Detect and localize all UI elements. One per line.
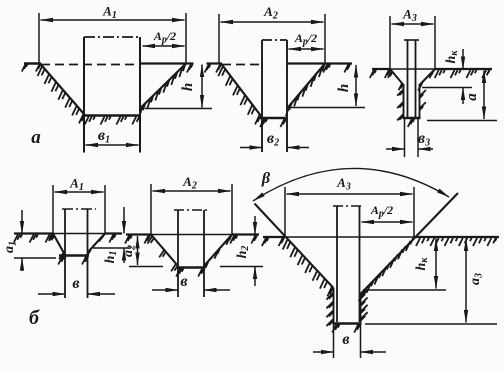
fig2 hatching under pit bottom <box>260 119 286 127</box>
fig3 dimension a <box>464 71 484 120</box>
fig1 right slope <box>141 64 187 109</box>
fig5 right slope hatching <box>203 235 232 273</box>
fig6 left slope (extended above ground) <box>255 204 334 289</box>
fig4 left depth extension line <box>14 257 56 259</box>
fig6 right slope (extended above ground) <box>361 193 459 294</box>
fig2 footing column <box>262 40 287 152</box>
fig4 right depth extension line <box>93 247 131 249</box>
fig4 ground line <box>14 232 122 234</box>
fig2 ground line right <box>325 62 352 64</box>
svg-text:а: а <box>464 93 480 101</box>
fig4 left slope <box>53 234 65 255</box>
fig6 dimension A3 <box>285 175 414 237</box>
fig3 trench side hatching <box>397 89 426 120</box>
fig2 right slope hatching <box>286 64 325 116</box>
fig5 left slope hatching <box>147 236 177 271</box>
fig5 right depth extension line <box>220 266 263 268</box>
fig2 ground line right of column <box>287 62 325 64</box>
fig6 right slope hatching <box>359 238 414 301</box>
fig6 pit bottom <box>333 322 362 325</box>
fig4 hatching under pit bottom <box>58 257 88 265</box>
fig2 pit bottom <box>260 117 288 120</box>
fig6 trench wall hatching <box>326 290 367 326</box>
fig5 dimension b (outside arrows) <box>152 273 230 290</box>
fig3 bevel depth extension line <box>422 87 472 89</box>
fig6 left slope hatching <box>283 240 333 297</box>
fig5 footing column <box>174 210 208 297</box>
fig5 left depth extension line <box>129 266 163 268</box>
fig3 hatching under left ground <box>370 70 390 78</box>
fig1 depth extension line <box>145 108 212 110</box>
fig3 ground line <box>372 68 492 70</box>
fig4 dimension h1 (outside arrows) <box>103 207 124 263</box>
fig6 dimension b (outside arrows) <box>313 331 386 352</box>
fig3 pit depth extension line <box>427 120 497 122</box>
fig1 dimension A1 <box>39 4 186 64</box>
fig1 hatching under left ground <box>22 64 41 72</box>
svg-text:β: β <box>261 170 271 187</box>
fig6 ground line <box>263 236 499 238</box>
fig4 dimension b (outside arrows) <box>38 275 115 294</box>
fig1 left slope hatching <box>38 66 85 123</box>
fig6 dimension a3 <box>466 239 485 323</box>
fig5 dimension A2 <box>151 174 232 235</box>
fig3 extension lines to b3 <box>405 118 419 157</box>
fig2 right slope <box>288 64 326 109</box>
fig1 ground line left <box>24 62 41 64</box>
fig1 footing column <box>84 37 140 153</box>
fig1 dimension Ap/2 <box>143 29 185 46</box>
fig2 dimension b2 (outside arrows) <box>240 130 309 149</box>
fig6 hatching under pit bottom <box>332 325 360 333</box>
fig5 hatching under left ground <box>125 236 150 244</box>
fig3 trench bottom <box>403 117 421 120</box>
fig5 pit bottom <box>177 266 205 269</box>
svg-text:а: а <box>31 127 41 148</box>
fig3 dimension hk (outside arrows) <box>444 49 463 104</box>
fig3 footing column <box>404 40 419 117</box>
fig1 dimension b1 <box>86 127 139 146</box>
fig3 trench walls <box>404 84 420 118</box>
fig2 hatching under right ground <box>323 65 350 73</box>
svg-text:h: h <box>180 83 196 91</box>
fig3 left bevel hatching <box>388 71 403 91</box>
fig4 footing column <box>62 209 96 298</box>
fig1 ground level dashed across pit <box>41 64 140 66</box>
label a (row marker) <box>31 127 41 148</box>
fig6 hatching under right ground <box>416 238 497 246</box>
fig4 dimension a1 (outside arrows) <box>2 210 22 271</box>
fig4 hatching under right ground <box>109 235 115 243</box>
svg-text:h: h <box>336 84 352 92</box>
label b (row marker) <box>29 307 40 329</box>
fig2 hatching under left ground <box>205 65 221 73</box>
fig6 footing column <box>333 206 363 322</box>
fig2 ground line left <box>207 62 223 64</box>
fig4 dimension A1 <box>53 176 105 234</box>
fig6 bevel depth extension line <box>363 289 446 291</box>
fig5 hatching under pit bottom <box>176 269 204 277</box>
fig3 hatching under trench bottom <box>408 119 414 127</box>
fig3 left bevel <box>390 69 404 85</box>
fig1 ground line right <box>186 62 194 64</box>
fig2 depth extension line <box>291 107 365 109</box>
fig6 pit depth extension line <box>365 323 497 325</box>
fig3 right bevel <box>420 69 436 85</box>
fig1 pit bottom <box>83 114 141 117</box>
fig2 left slope <box>221 64 261 117</box>
fig1 left slope <box>40 64 84 115</box>
fig2 dimension h <box>336 65 356 106</box>
fig1 hatching under pit bottom <box>85 117 140 125</box>
fig6 hatching under left ground <box>262 238 284 246</box>
fig6 dimension hk <box>414 239 436 289</box>
svg-text:в: в <box>72 275 79 292</box>
fig6 dimension Ap/2 <box>362 203 413 222</box>
fig4 left slope hatching <box>49 235 65 260</box>
fig6 angle arc beta <box>253 168 449 201</box>
fig6 trench walls <box>334 288 361 324</box>
fig6 extension lines to b <box>334 324 361 359</box>
fig5 dimension a2 <box>121 236 138 265</box>
fig5 ground line <box>126 233 259 235</box>
fig4 right slope <box>88 234 105 253</box>
fig2 left slope hatching <box>218 66 260 124</box>
fig2 dimension A2 <box>219 4 325 64</box>
fig3 right bevel hatching <box>418 70 434 90</box>
svg-text:в: в <box>342 331 349 348</box>
fig5 left slope <box>151 235 178 267</box>
fig5 right slope <box>204 235 232 267</box>
fig2 ground level dashed across pit <box>222 64 262 66</box>
fig4 pit bottom <box>59 254 89 257</box>
fig3 hatching under right ground <box>435 70 490 78</box>
fig3 dimension A3 <box>390 7 435 70</box>
svg-text:б: б <box>29 307 40 329</box>
fig2 dimension Ap/2 <box>289 31 324 49</box>
fig1 ground line right of column (solid to slope crest) <box>140 62 186 64</box>
fig1 right slope hatching <box>139 64 185 116</box>
fig1 dimension h <box>180 65 202 108</box>
fig4 hatching under left ground <box>14 235 52 243</box>
fig4 right slope hatching <box>85 234 105 258</box>
fig3 dimension b3 (outside arrows) <box>386 130 433 149</box>
fig1 hatching under right ground <box>187 65 193 73</box>
fig5 dimension h2 (outside arrows) <box>235 216 255 286</box>
svg-text:в: в <box>180 273 187 290</box>
fig5 hatching under right ground <box>230 236 257 244</box>
